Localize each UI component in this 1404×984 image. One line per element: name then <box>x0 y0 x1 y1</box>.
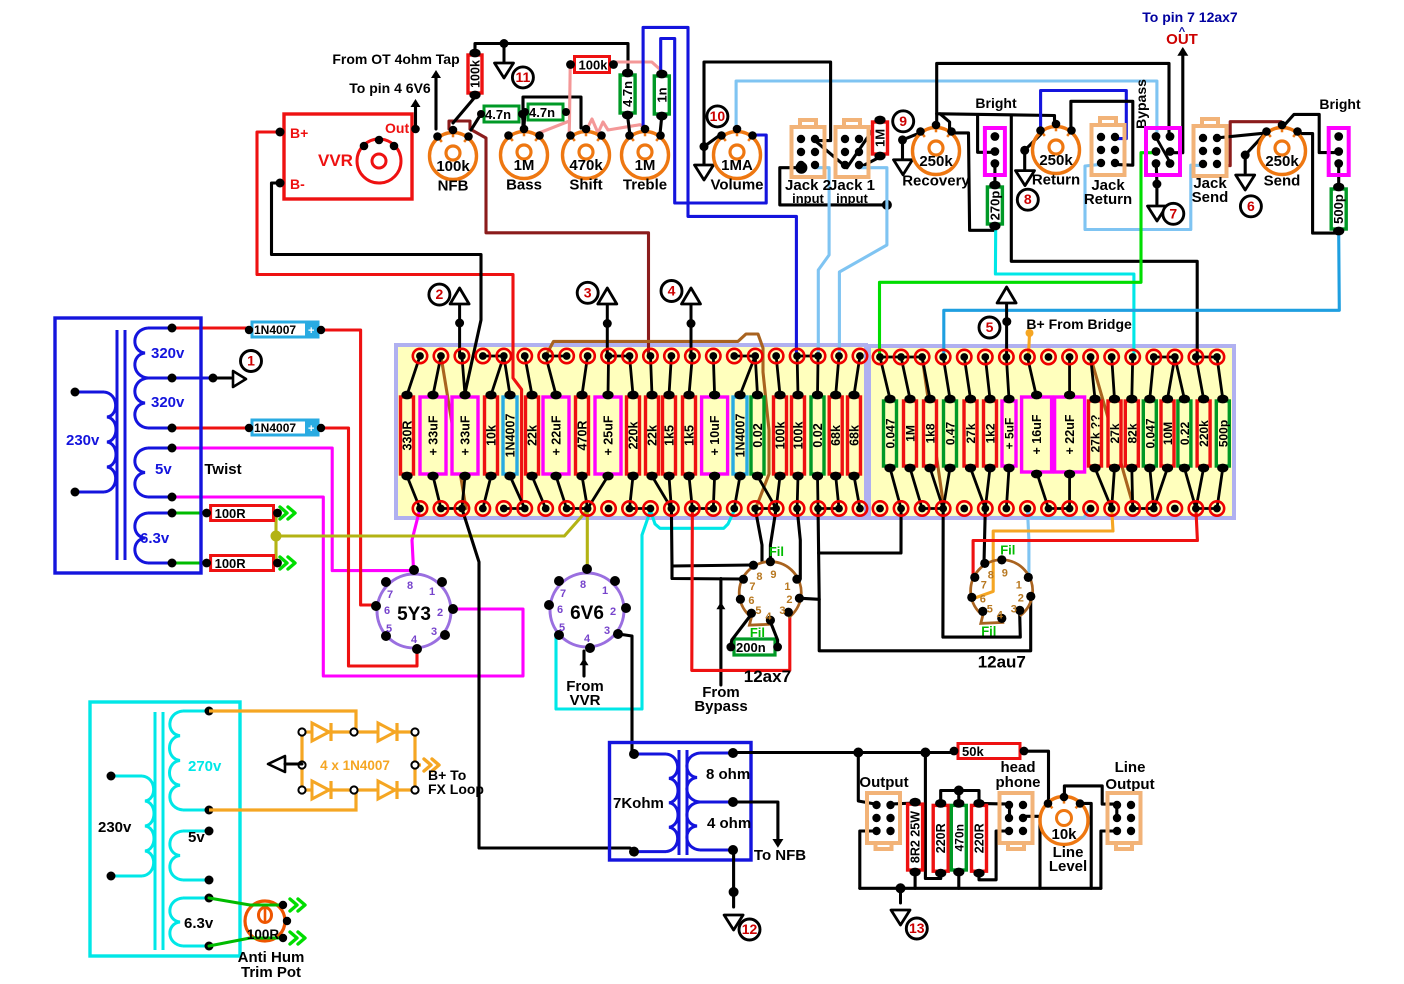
svg-text:Treble: Treble <box>623 177 667 194</box>
svg-text:4: 4 <box>997 609 1004 621</box>
ground 13 <box>899 888 902 903</box>
wire black Bypass to ground 7 <box>1155 164 1159 204</box>
svg-text:320v: 320v <box>151 394 185 411</box>
svg-text:220k: 220k <box>1197 420 1211 447</box>
resistor 1k5 board1 <box>683 391 697 481</box>
wire black Line Level lug to bus <box>1080 803 1091 888</box>
wire black bus to Return wiper <box>940 114 1055 126</box>
svg-text:3: 3 <box>584 284 592 300</box>
output transformer OT <box>610 743 752 861</box>
wire sky Volume wiper to Bypass switch <box>736 81 1157 137</box>
wire black B- from VVR to board1 <box>272 183 482 393</box>
svg-text:1n: 1n <box>654 87 669 102</box>
svg-text:1N4007: 1N4007 <box>734 414 748 458</box>
switch Bright right <box>1329 128 1349 175</box>
diode 1N4007 board1 <box>503 391 518 481</box>
svg-text:100k: 100k <box>436 158 470 175</box>
svg-text:From OT 4ohm Tap: From OT 4ohm Tap <box>332 51 459 67</box>
svg-text:22k: 22k <box>526 425 540 446</box>
svg-text:4.7n: 4.7n <box>485 107 511 122</box>
svg-text:100k: 100k <box>774 422 788 450</box>
svg-text:100R: 100R <box>247 927 280 942</box>
svg-text:Fil: Fil <box>981 623 996 638</box>
wire black Send lug to ground 6 <box>1245 133 1265 173</box>
svg-text:+ 33uF: + 33uF <box>427 415 441 455</box>
pot Volume 1MA <box>710 125 763 194</box>
svg-text:100R: 100R <box>215 506 247 521</box>
svg-text:Send: Send <box>1192 189 1229 206</box>
svg-text:13: 13 <box>909 920 925 936</box>
wire black Recovery lug to ground 9 <box>903 133 921 159</box>
ground 2 at board1 <box>450 288 469 304</box>
svg-text:2: 2 <box>786 594 792 606</box>
wire black 4.7n A to NFB lug <box>471 114 481 130</box>
svg-text:220k: 220k <box>627 422 641 450</box>
diode 1N4007 board1 <box>733 391 748 481</box>
wire black headphone to bus <box>1023 816 1040 888</box>
svg-text:Bypass: Bypass <box>1133 79 1149 129</box>
turret board 2 <box>869 346 1234 518</box>
svg-text:FX Loop: FX Loop <box>428 781 484 797</box>
wire black board2 turret to 12ax7 pin2 net <box>819 509 901 554</box>
power transformer PT1 <box>55 318 201 573</box>
svg-text:3: 3 <box>1011 603 1017 615</box>
svg-text:1MA: 1MA <box>721 157 753 174</box>
svg-text:82k: 82k <box>1125 423 1139 443</box>
wire green trafo 6.3v to 100R B <box>172 562 206 565</box>
svg-text:27k ??: 27k ?? <box>1089 414 1103 452</box>
wire black Output jack to 8R2 <box>890 803 915 804</box>
board1 component lead wires <box>407 356 420 395</box>
capacitor 500p board2 <box>1216 395 1230 473</box>
svg-text:1: 1 <box>247 353 255 369</box>
wire black jack V link A <box>815 120 880 168</box>
board2 top row bridges <box>880 356 901 359</box>
wire black board1 to 12ax7 pin2 and 12au7 pin2 <box>801 509 819 600</box>
svg-text:5: 5 <box>986 319 994 335</box>
capacitor 1n <box>654 70 669 121</box>
orange arrows B+ To FX Loop <box>424 759 431 771</box>
resistor 220R B <box>972 799 987 878</box>
svg-text:^: ^ <box>1179 26 1186 38</box>
wire green Bypass to board2 <box>880 153 1157 355</box>
capacitor 4.7n B <box>521 104 570 120</box>
wire black Volume lug to ground 10 <box>704 135 720 165</box>
svg-text:100k: 100k <box>469 60 483 88</box>
wire black From OT 4ohm Tap to NFB <box>434 78 437 129</box>
svg-text:6.3v: 6.3v <box>140 530 170 547</box>
pot Line Level 10k <box>1040 793 1088 845</box>
wire maroon NFB to board1 <box>470 129 649 355</box>
wire black OT mid tap To NFB <box>733 802 778 840</box>
pot Shift 470k <box>563 125 610 194</box>
wire maroon Jack Send to Send wiper <box>1227 122 1284 166</box>
wire green trafo 6.3v to 100R A <box>172 512 206 515</box>
svg-text:9: 9 <box>770 569 776 581</box>
svg-text:1M: 1M <box>873 129 888 147</box>
svg-text:2: 2 <box>1018 592 1024 604</box>
svg-text:12au7: 12au7 <box>978 652 1026 671</box>
wire red board2 to 12au7 pin7 <box>973 509 1197 578</box>
svg-text:B+: B+ <box>290 125 308 141</box>
wire black Send wiper to Bright switch right <box>1282 114 1337 152</box>
svg-text:22k: 22k <box>646 425 660 446</box>
wire cyan board1 U jumper <box>650 511 734 529</box>
svg-text:Recovery: Recovery <box>902 173 970 190</box>
svg-text:3: 3 <box>779 605 785 617</box>
switch Bypass <box>1146 128 1180 175</box>
wire magenta 5v twist A <box>172 448 414 571</box>
arrow right node 1 <box>233 371 246 387</box>
svg-text:4 ohm: 4 ohm <box>707 815 751 832</box>
wire black OT bottom to ground 12 <box>732 850 735 907</box>
label circled 10 <box>707 106 728 127</box>
svg-text:10k: 10k <box>1051 826 1077 843</box>
label circled 9 <box>893 111 914 132</box>
svg-text:68k: 68k <box>829 425 843 446</box>
svg-text:220R: 220R <box>973 823 987 853</box>
svg-text:6: 6 <box>1247 198 1255 214</box>
svg-text:1M: 1M <box>635 157 656 174</box>
capacitor + 25uF board1 <box>595 391 621 481</box>
svg-text:4: 4 <box>411 634 418 646</box>
resistor 330R board1 <box>401 391 415 481</box>
svg-text:7Kohm: 7Kohm <box>613 795 664 812</box>
svg-text:+: + <box>308 325 314 337</box>
arrow black bridge negative <box>268 756 285 772</box>
wire black 12ax7 pin4 to 200n <box>770 621 778 645</box>
svg-text:4 x 1N4007: 4 x 1N4007 <box>320 758 390 773</box>
svg-text:Bass: Bass <box>506 177 542 194</box>
capacitor + 22uF board1 <box>543 391 569 481</box>
wire olive bus to board1 and 6V6 pin8 <box>276 510 587 536</box>
wire black Return lug to ground 8 <box>1025 134 1041 169</box>
svg-text:8R2 25W: 8R2 25W <box>909 811 923 863</box>
jack Jack Send <box>1194 119 1227 176</box>
wire blue trafo 320v centre tap <box>172 376 213 379</box>
wire black bus to Output jack <box>858 753 875 805</box>
svg-text:B-: B- <box>290 176 305 192</box>
resistor 10M board2 <box>1161 395 1175 473</box>
wire black From Bypass to 12ax7 pin7 <box>719 579 722 686</box>
svg-text:Level: Level <box>1049 858 1087 875</box>
jack J1 input <box>836 120 869 177</box>
svg-text:250k: 250k <box>1039 152 1073 169</box>
pot Send 250k <box>1259 121 1306 190</box>
svg-text:270p: 270p <box>987 191 1002 221</box>
label circled 11 <box>512 67 533 88</box>
svg-text:0.22: 0.22 <box>1178 421 1192 445</box>
wire black Volume ground loop to Jack 2 <box>704 62 831 147</box>
svg-text:1k2: 1k2 <box>984 423 998 443</box>
wire black 8ohm bus to 50k <box>733 751 950 754</box>
svg-text:8: 8 <box>756 571 762 583</box>
wire black board2 to 12au7 pin8 <box>984 509 985 564</box>
wire brown diagonal board2 left <box>922 357 944 509</box>
board2 component lead wires <box>880 357 890 399</box>
svg-text:input: input <box>792 191 824 206</box>
capacitor + 33uF board1 <box>420 391 446 481</box>
capacitor 4.7n A <box>477 106 526 122</box>
wire black OUT to Bypass switch <box>1171 50 1183 153</box>
ground 12 <box>724 915 743 930</box>
ground Volume <box>695 165 714 180</box>
svg-text:To pin 7 12ax7: To pin 7 12ax7 <box>1142 9 1238 25</box>
wire orange board2 to 12au7 pin6 <box>974 509 1114 599</box>
svg-text:Bypass: Bypass <box>694 698 747 715</box>
svg-text:Output: Output <box>859 774 908 791</box>
wire black 470n bottom to bus <box>957 873 960 888</box>
svg-text:Twist: Twist <box>204 461 241 478</box>
svg-text:7: 7 <box>387 589 393 601</box>
wire black 12ax7 pin5 to 200n <box>731 614 752 645</box>
wire black Jack Return to Return lug loop <box>1071 101 1133 165</box>
svg-text:VVR: VVR <box>570 692 601 709</box>
svg-text:6.3v: 6.3v <box>184 915 214 932</box>
svg-text:1N4007: 1N4007 <box>254 421 296 435</box>
svg-text:100k: 100k <box>792 422 806 450</box>
svg-text:470k: 470k <box>569 157 603 174</box>
svg-text:1M: 1M <box>904 425 918 442</box>
wire black bus down to 220R <box>925 753 940 879</box>
wire olive board1 to 6V6 pin8 <box>585 510 587 568</box>
svg-text:Line: Line <box>1115 759 1146 776</box>
wire black 4.7n to Treble lug <box>628 116 630 133</box>
svg-text:To NFB: To NFB <box>754 847 806 864</box>
svg-text:100k: 100k <box>579 58 609 73</box>
capacitor 4.7n treble <box>620 69 635 120</box>
svg-text:220R: 220R <box>934 823 948 853</box>
svg-text:0.047: 0.047 <box>884 418 898 448</box>
svg-text:1: 1 <box>784 581 790 593</box>
wire black headphone sleeve to 220R bottom <box>979 831 1010 880</box>
wire maroon NFB lug bracket <box>449 121 470 129</box>
svg-text:0.47: 0.47 <box>944 421 958 445</box>
wire red diode D1 to 5Y3 pin6 <box>321 330 374 605</box>
resistor 22k board1 <box>646 391 660 481</box>
wire black Send lug to 500p bottom <box>1297 134 1337 234</box>
tube socket 5Y3 <box>371 565 458 654</box>
wire black board2 to 12au7 pin3 loop <box>943 509 1020 638</box>
wire cyan 270p to board2 <box>995 229 1134 356</box>
wire red diode D2 to 5Y3 pin4 <box>321 428 417 666</box>
svg-text:9: 9 <box>899 113 907 129</box>
wire black Bright right to 500p <box>1337 166 1340 185</box>
board2 turrets bottom row <box>873 501 887 515</box>
wire blue 1n top loop to Volume lug <box>661 39 767 204</box>
svg-text:8: 8 <box>407 580 413 592</box>
label circled 12 <box>739 919 760 940</box>
svg-text:1: 1 <box>1016 579 1022 591</box>
wire black 8R2 to bus <box>914 873 917 888</box>
ground Recovery <box>894 160 913 175</box>
green arrows trim A <box>290 899 297 911</box>
svg-text:1: 1 <box>429 586 435 598</box>
svg-text:3: 3 <box>431 626 437 638</box>
svg-text:To pin 4 6V6: To pin 4 6V6 <box>349 80 431 96</box>
svg-text:5v: 5v <box>155 461 172 478</box>
resistor 50k <box>950 744 1029 760</box>
svg-text:1N4007: 1N4007 <box>504 414 518 458</box>
green arrows B <box>280 557 287 569</box>
jack Line Output <box>1108 793 1141 849</box>
svg-text:+ 5uF: + 5uF <box>1003 418 1017 450</box>
svg-text:12ax7: 12ax7 <box>744 667 791 686</box>
capacitor + 10uF board1 <box>702 391 728 481</box>
svg-text:50k: 50k <box>962 744 984 759</box>
wire pink branch to Shift lug <box>568 121 571 133</box>
ground 11 <box>503 44 506 64</box>
label circled 13 <box>906 918 927 939</box>
svg-text:200n: 200n <box>736 640 766 655</box>
wire black board1 to OT primary bottom <box>462 509 634 852</box>
trim pot Anti Hum 100R <box>245 901 285 941</box>
resistor 68k board1 <box>829 391 843 481</box>
wire red B+ from VVR to board1 <box>257 132 522 503</box>
resistor 1k2 board2 <box>984 395 998 473</box>
svg-text:4.7n: 4.7n <box>529 105 555 120</box>
wire black 220R to headphone <box>979 802 1010 806</box>
svg-text:B+ From Bridge: B+ From Bridge <box>1026 316 1132 332</box>
svg-text:6: 6 <box>748 595 754 607</box>
resistor 82k board2 <box>1125 395 1139 473</box>
svg-text:5: 5 <box>559 622 565 634</box>
tube socket 12au7 <box>967 542 1035 671</box>
svg-text:330R: 330R <box>401 421 415 451</box>
wire red trafo 320v bottom to diode D2 <box>172 426 248 429</box>
svg-text:12: 12 <box>742 921 758 937</box>
resistor 10k board1 <box>485 391 499 481</box>
wire green 6.3v to trim pot B <box>209 938 283 946</box>
wire black caps top bracket <box>941 791 979 804</box>
ground Return <box>1016 171 1035 186</box>
svg-text:500p: 500p <box>1216 420 1230 447</box>
capacitor 0.047 board2 <box>1143 395 1157 473</box>
svg-text:250k: 250k <box>919 153 953 170</box>
wire black board1 to 12ax7 pin1 <box>797 509 800 580</box>
wire magenta 5v twist B <box>172 497 523 676</box>
wire sky Jack Return to Jack Send <box>1085 164 1202 229</box>
jack Jack Return <box>1092 118 1125 175</box>
wire black 1n to Treble lug <box>660 116 662 134</box>
svg-text:Return: Return <box>1084 191 1132 208</box>
wire brown board1 jumper with hump <box>546 334 769 509</box>
svg-text:4: 4 <box>584 633 591 645</box>
wire blue Treble wiper loop to board1 <box>643 27 796 355</box>
jack headphone <box>1000 793 1033 849</box>
node olive junction <box>271 531 282 542</box>
resistor 100k board1 <box>792 391 806 481</box>
capacitor + 33uF board1 <box>452 391 478 481</box>
resistor 8R2 25W <box>908 798 923 877</box>
svg-text:6: 6 <box>384 605 390 617</box>
wire black Line Level wiper to Line Output <box>1064 786 1115 804</box>
svg-text:5: 5 <box>755 605 761 617</box>
wire olive hum pot junction vertical <box>274 513 277 560</box>
label circled 3 <box>577 282 598 303</box>
svg-text:0.02: 0.02 <box>751 423 765 447</box>
svg-text:8: 8 <box>1024 191 1032 207</box>
resistor 100k treble feed <box>566 57 618 73</box>
resistor 68k board1 <box>848 391 862 481</box>
ground 4 at board1 <box>682 288 701 304</box>
wire black branch to Bright switch mid pin <box>978 115 994 153</box>
resistor 1M grid <box>873 116 888 161</box>
VVR box <box>276 114 420 199</box>
svg-text:2: 2 <box>610 606 616 618</box>
svg-text:5: 5 <box>386 623 392 635</box>
wire black centre tap to arrow 1 <box>213 376 231 379</box>
svg-text:7: 7 <box>1169 205 1177 221</box>
diode bridge 4 x 1N4007 <box>209 711 421 810</box>
switch Bypass lever <box>1156 138 1170 163</box>
svg-text:10M: 10M <box>1161 422 1175 445</box>
label circled 1 <box>241 351 262 372</box>
capacitor 0.22 board2 <box>1178 395 1192 473</box>
green arrows A <box>280 507 287 519</box>
resistor 22k board1 <box>526 391 540 481</box>
label circled 7 <box>1163 203 1184 224</box>
svg-text:1k5: 1k5 <box>663 425 677 446</box>
resistor 27k board2 <box>964 395 978 473</box>
resistor 27k ?? board2 <box>1089 395 1103 473</box>
svg-text:+ 22uF: + 22uF <box>550 415 564 455</box>
pot Bass 1M <box>501 125 548 194</box>
svg-text:1k5: 1k5 <box>683 425 697 446</box>
capacitor + 22uF board2 <box>1055 391 1085 479</box>
svg-text:68k: 68k <box>848 425 862 446</box>
capacitor 270p <box>987 181 1002 231</box>
tube socket 6V6 <box>544 564 631 653</box>
svg-text:Bright: Bright <box>975 95 1017 111</box>
resistor 220k board1 <box>627 391 641 481</box>
wire black board1 to 12ax7 pin8 and pin7 <box>671 509 751 567</box>
wire black Recovery wiper to Bypass <box>937 63 1169 137</box>
capacitor 500p <box>1331 183 1346 236</box>
svg-text:6: 6 <box>557 604 563 616</box>
svg-text:5: 5 <box>987 603 993 615</box>
wire black board1 to 12ax7 top pins <box>755 509 762 562</box>
svg-text:270v: 270v <box>188 758 222 775</box>
label circled 6 <box>1240 196 1261 217</box>
ground Send <box>1236 175 1255 190</box>
resistor 1M board2 <box>904 395 918 473</box>
capacitor 0.47 board2 <box>944 395 958 473</box>
wire black Recovery lug to 270p bottom <box>950 133 995 230</box>
pot Recovery 250k <box>902 121 970 190</box>
svg-text:Volume: Volume <box>710 177 763 194</box>
wire pink 100k to 1n cap <box>611 62 662 71</box>
svg-text:VVR: VVR <box>318 151 353 170</box>
svg-text:Fil: Fil <box>769 544 784 559</box>
board1 top row bridges <box>483 355 504 358</box>
wire black Jack2 sleeve bus <box>780 168 887 205</box>
wire black 4.7n caps to Bass wiper <box>522 114 524 126</box>
svg-text:2: 2 <box>436 286 444 302</box>
jack J2 input <box>792 120 825 177</box>
resistor 100k NFB feed <box>468 49 483 100</box>
wire green 6.3v to trim pot A <box>209 898 283 905</box>
svg-text:1: 1 <box>602 585 608 597</box>
wire black Jack Send to Send lug <box>1216 133 1266 138</box>
ground 3 at board1 <box>598 288 617 304</box>
wire pink 100k to Bass lug <box>536 66 570 134</box>
label circled 2 <box>429 284 450 305</box>
ground Bypass <box>1148 206 1167 221</box>
wire black headphone pins link <box>1008 804 1011 816</box>
svg-text:Return: Return <box>1032 172 1080 189</box>
label circled 5 <box>979 317 1000 338</box>
